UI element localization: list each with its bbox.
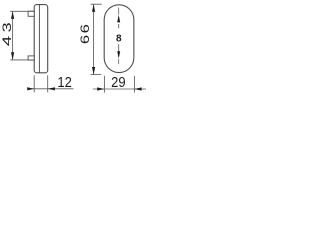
svg-text:12: 12 xyxy=(57,73,72,90)
svg-text:4: 4 xyxy=(1,35,14,46)
svg-text:8: 8 xyxy=(116,33,122,44)
svg-text:29: 29 xyxy=(111,73,126,90)
svg-text:6: 6 xyxy=(79,35,92,44)
svg-text:6: 6 xyxy=(79,24,92,33)
svg-text:3: 3 xyxy=(1,22,14,32)
